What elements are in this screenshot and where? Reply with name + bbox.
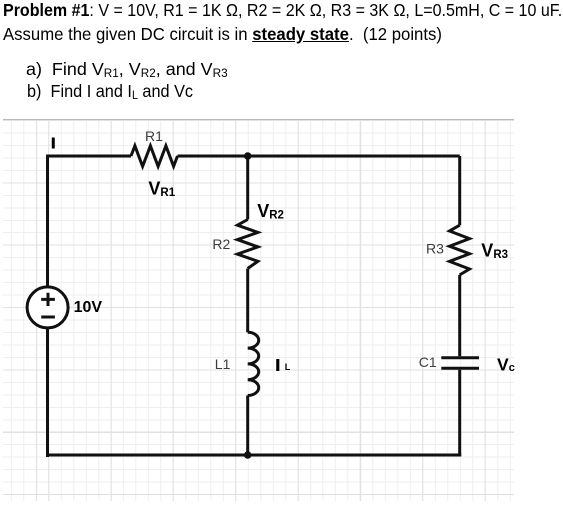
- minus sign of source: [41, 316, 55, 319]
- svg-text:VR3: VR3: [481, 240, 508, 261]
- svg-text:VR2: VR2: [257, 201, 284, 222]
- svg-text:10V: 10V: [74, 299, 103, 316]
- node B bottom junction dot: [244, 451, 252, 459]
- svg-text:Vc: Vc: [497, 354, 515, 374]
- svg-text:R3: R3: [426, 241, 444, 257]
- svg-text:I: I: [276, 357, 280, 374]
- wire: top horizontal to right: [178, 155, 460, 158]
- wire: right vertical lower: [458, 370, 461, 457]
- capacitor C1: [441, 358, 479, 369]
- svg-text:L: L: [285, 362, 291, 372]
- svg-text:R2: R2: [212, 236, 230, 252]
- wire: middle vertical upper: [246, 156, 249, 220]
- resistor R2: [237, 220, 258, 269]
- grid background: [3, 119, 514, 501]
- svg-text:I: I: [51, 136, 55, 152]
- voltage source V1 circle: [27, 287, 68, 328]
- resistor R3: [450, 225, 470, 275]
- svg-text:VR1: VR1: [148, 179, 175, 200]
- wire: middle vertical lower: [246, 396, 249, 456]
- svg-text:L1: L1: [215, 356, 231, 372]
- wire: bottom horizontal: [46, 454, 461, 457]
- plus sign of source: [41, 293, 55, 306]
- wire: top-left horizontal lead: [48, 156, 132, 457]
- inductor L1: [248, 332, 259, 395]
- resistor R1: [131, 146, 178, 167]
- svg-text:R1: R1: [145, 128, 163, 144]
- svg-text:C1: C1: [419, 354, 437, 370]
- wire: middle vertical to inductor: [246, 269, 249, 333]
- wire: right vertical upper: [458, 156, 461, 225]
- node A top junction dot: [244, 152, 252, 160]
- wire: right vertical to capacitor: [458, 275, 461, 356]
